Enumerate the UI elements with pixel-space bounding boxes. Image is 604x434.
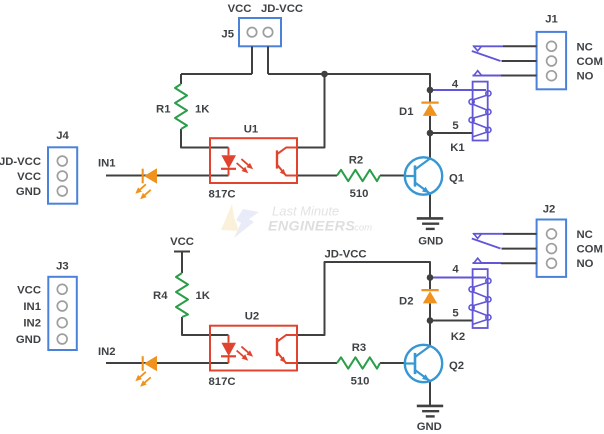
svg-text:VCC: VCC: [17, 284, 41, 296]
svg-text:U2: U2: [245, 311, 259, 323]
svg-text:510: 510: [351, 375, 370, 387]
svg-text:VCC: VCC: [228, 3, 252, 15]
svg-text:K2: K2: [451, 331, 465, 343]
svg-text:Q1: Q1: [449, 172, 464, 184]
svg-text:J3: J3: [56, 261, 69, 273]
svg-text:510: 510: [350, 188, 369, 200]
svg-text:817C: 817C: [209, 376, 236, 388]
svg-text:IN1: IN1: [23, 301, 41, 313]
svg-text:1K: 1K: [196, 290, 211, 302]
svg-text:NC: NC: [577, 229, 593, 241]
svg-text:5: 5: [452, 120, 458, 132]
svg-text:GND: GND: [418, 235, 443, 247]
svg-text:817C: 817C: [209, 189, 236, 201]
svg-text:IN2: IN2: [23, 318, 41, 330]
svg-text:4: 4: [452, 264, 459, 276]
svg-text:NO: NO: [577, 258, 594, 270]
svg-text:Last Minute: Last Minute: [272, 204, 339, 219]
svg-text:ENGINEERS: ENGINEERS: [268, 218, 355, 234]
svg-text:IN2: IN2: [98, 346, 116, 358]
svg-text:.com: .com: [352, 223, 373, 234]
svg-text:1K: 1K: [195, 104, 210, 116]
svg-text:GND: GND: [417, 421, 442, 433]
svg-text:COM: COM: [577, 56, 603, 68]
svg-text:R3: R3: [352, 342, 366, 354]
svg-text:J4: J4: [56, 130, 69, 142]
svg-text:Q2: Q2: [449, 360, 464, 372]
svg-text:5: 5: [452, 308, 458, 320]
svg-text:NC: NC: [577, 41, 593, 53]
svg-text:JD-VCC: JD-VCC: [261, 3, 303, 15]
svg-text:VCC: VCC: [17, 171, 41, 183]
svg-text:D2: D2: [399, 296, 413, 308]
svg-text:U1: U1: [244, 124, 258, 136]
svg-text:J1: J1: [545, 14, 558, 26]
svg-text:JD-VCC: JD-VCC: [325, 248, 367, 260]
svg-text:JD-VCC: JD-VCC: [0, 156, 41, 168]
svg-text:NO: NO: [577, 71, 594, 83]
svg-text:K1: K1: [450, 142, 464, 154]
svg-text:VCC: VCC: [170, 236, 194, 248]
svg-text:R1: R1: [156, 104, 170, 116]
svg-text:GND: GND: [16, 334, 41, 346]
svg-text:COM: COM: [577, 244, 603, 256]
svg-text:J5: J5: [221, 29, 234, 41]
svg-text:J2: J2: [543, 204, 556, 216]
svg-text:R4: R4: [153, 290, 168, 302]
svg-text:4: 4: [452, 78, 459, 90]
svg-text:D1: D1: [399, 106, 413, 118]
svg-text:GND: GND: [16, 186, 41, 198]
svg-text:IN1: IN1: [98, 158, 116, 170]
svg-text:R2: R2: [349, 154, 363, 166]
